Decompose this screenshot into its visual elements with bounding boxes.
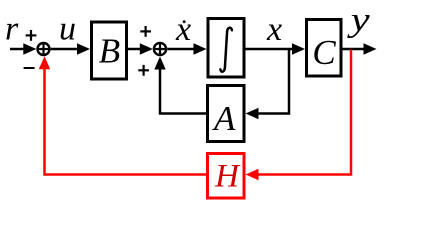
wire S2 to integrator — [167, 43, 206, 54]
block C — [307, 20, 342, 77]
node xdot label — [175, 11, 191, 48]
summing junction S2 — [153, 42, 166, 55]
block B — [92, 22, 127, 79]
wire H to summer S1 (red) — [39, 56, 206, 174]
integrator label — [220, 28, 232, 72]
svg-text:B: B — [99, 32, 120, 71]
wire u: S1 to block B — [51, 43, 90, 54]
block A — [208, 86, 245, 142]
wire x branch down to block A — [246, 49, 290, 119]
plus sign at summer S2 input from A — [138, 65, 149, 76]
wire C to output y — [343, 43, 377, 54]
wire B to summer S2 — [128, 43, 153, 54]
plus sign at summer S1 input — [26, 30, 37, 41]
wire integrator to C — [246, 43, 306, 54]
svg-text:x: x — [175, 11, 191, 48]
svg-text:A: A — [212, 99, 236, 138]
wire r input arrow — [10, 43, 36, 54]
minus sign at summer S1 feedback input — [24, 67, 35, 69]
svg-text:r: r — [5, 11, 19, 48]
svg-text:H: H — [214, 159, 241, 195]
plus sign at summer S2 input from B — [140, 26, 151, 37]
svg-text:u: u — [59, 11, 76, 48]
svg-text:y: y — [346, 2, 370, 39]
integrator block — [208, 19, 244, 78]
block H (red) — [208, 154, 245, 199]
wire A to summer S2 — [154, 57, 206, 114]
wire y branch down to block H (red) — [246, 50, 352, 181]
svg-text:C: C — [312, 33, 336, 72]
svg-text:x: x — [266, 11, 282, 48]
summing junction S1 — [37, 43, 50, 56]
